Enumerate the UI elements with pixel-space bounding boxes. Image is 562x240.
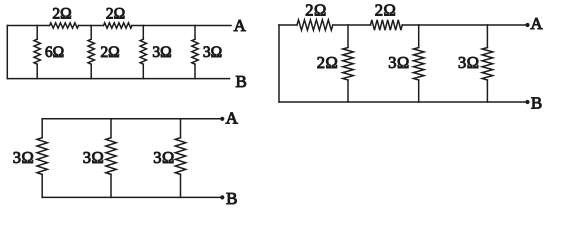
svg-text:3Ω: 3Ω bbox=[153, 148, 175, 167]
svg-text:A: A bbox=[530, 14, 543, 33]
svg-text:2Ω: 2Ω bbox=[106, 6, 125, 23]
svg-text:3Ω: 3Ω bbox=[152, 44, 171, 61]
svg-text:B: B bbox=[236, 72, 247, 91]
svg-text:3Ω: 3Ω bbox=[13, 148, 35, 167]
svg-text:3Ω: 3Ω bbox=[458, 53, 480, 72]
svg-text:2Ω: 2Ω bbox=[100, 44, 119, 61]
svg-text:3Ω: 3Ω bbox=[203, 44, 222, 61]
svg-text:2Ω: 2Ω bbox=[305, 1, 327, 20]
svg-text:2Ω: 2Ω bbox=[317, 53, 339, 72]
svg-text:6Ω: 6Ω bbox=[45, 44, 64, 61]
svg-text:3Ω: 3Ω bbox=[83, 148, 105, 167]
svg-text:2Ω: 2Ω bbox=[52, 6, 71, 23]
svg-text:A: A bbox=[226, 109, 239, 128]
svg-text:A: A bbox=[234, 16, 247, 35]
svg-text:3Ω: 3Ω bbox=[388, 53, 410, 72]
svg-text:B: B bbox=[226, 189, 237, 208]
svg-text:2Ω: 2Ω bbox=[375, 1, 397, 20]
svg-text:B: B bbox=[531, 94, 542, 113]
